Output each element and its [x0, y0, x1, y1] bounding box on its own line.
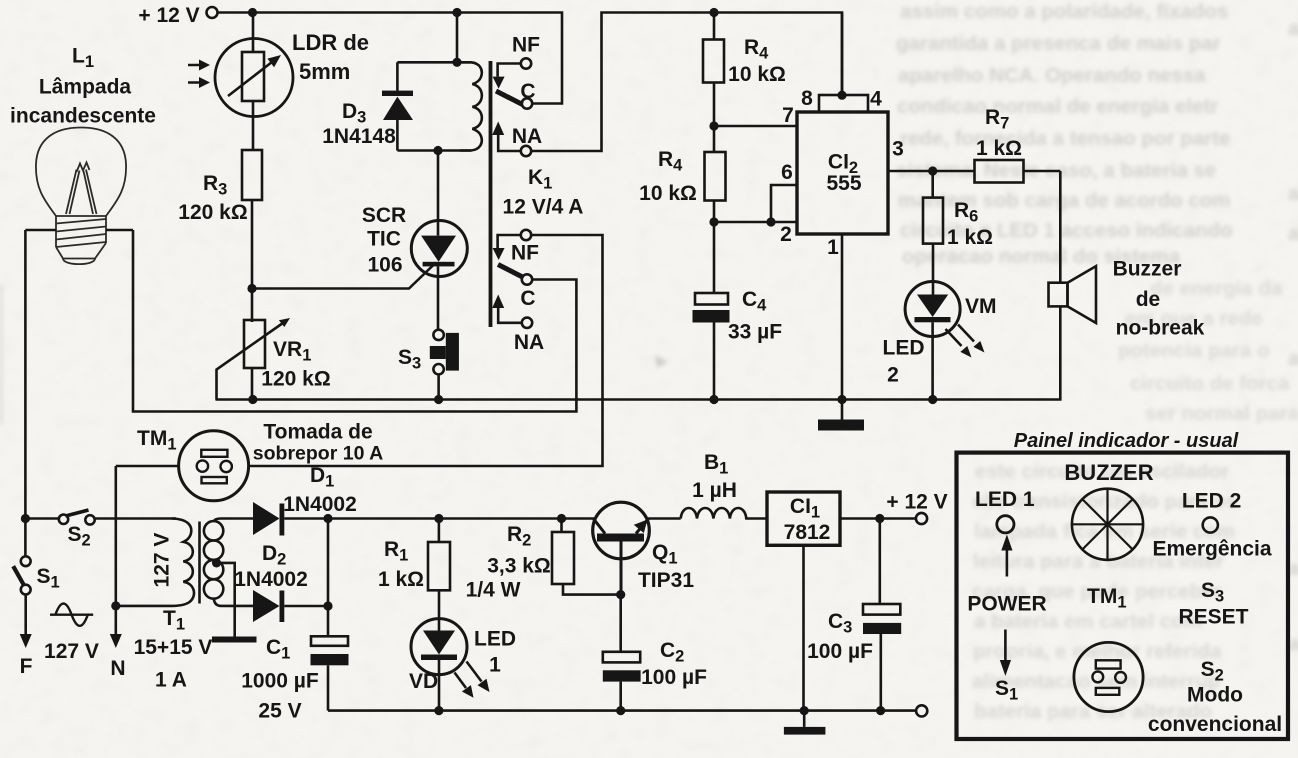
svg-text:1 kΩ: 1 kΩ: [378, 568, 424, 591]
svg-text:106: 106: [367, 254, 402, 277]
svg-text:POWER: POWER: [967, 593, 1046, 616]
svg-text:15+15 V: 15+15 V: [134, 636, 213, 659]
svg-text:1: 1: [489, 654, 501, 677]
svg-text:al: al: [1288, 348, 1298, 370]
svg-text:1 A: 1 A: [155, 669, 187, 692]
svg-text:33 µF: 33 µF: [728, 321, 782, 344]
svg-text:al: al: [1288, 183, 1298, 205]
svg-text:1/4 W: 1/4 W: [466, 579, 521, 602]
svg-text:RESET: RESET: [1178, 606, 1248, 629]
svg-text:Lâmpada: Lâmpada: [39, 76, 132, 99]
svg-text:7812: 7812: [784, 521, 831, 544]
svg-text:al: al: [1288, 18, 1298, 40]
svg-text:mantem sob carga de acordo com: mantem sob carga de acordo com: [898, 189, 1231, 212]
svg-text:no-break: no-break: [1116, 317, 1205, 340]
svg-text:garantida a presenca de mais p: garantida a presenca de mais par: [896, 32, 1221, 55]
svg-text:1000 µF: 1000 µF: [241, 670, 319, 693]
svg-text:5mm: 5mm: [299, 59, 350, 84]
svg-text:1 µH: 1 µH: [692, 479, 737, 502]
svg-text:TIP31: TIP31: [638, 569, 694, 592]
svg-text:Emergência: Emergência: [1152, 538, 1271, 561]
svg-text:potencia para o: potencia para o: [1118, 339, 1270, 362]
svg-text:7: 7: [782, 104, 794, 127]
svg-text:2: 2: [887, 364, 899, 387]
svg-text:4: 4: [870, 88, 882, 111]
svg-text:120 kΩ: 120 kΩ: [261, 368, 330, 391]
svg-text:LED 1: LED 1: [975, 488, 1035, 511]
svg-text:2: 2: [780, 223, 792, 246]
svg-text:NA: NA: [514, 331, 544, 354]
svg-text:TIC: TIC: [367, 228, 401, 251]
svg-text:C: C: [520, 287, 535, 310]
svg-text:+ 12 V: + 12 V: [138, 4, 199, 27]
svg-text:VD: VD: [409, 670, 438, 693]
svg-text:condicao normal de energia ele: condicao normal de energia eletr: [897, 95, 1218, 118]
svg-text:127 V: 127 V: [44, 640, 99, 663]
svg-text:3,3 kΩ: 3,3 kΩ: [487, 555, 551, 578]
svg-text:100 µF: 100 µF: [641, 666, 707, 689]
svg-text:sobrepor 10 A: sobrepor 10 A: [253, 443, 383, 465]
svg-text:3: 3: [892, 138, 904, 161]
svg-text:BUZZER: BUZZER: [1064, 460, 1153, 485]
svg-text:assim como a polaridade, fixad: assim como a polaridade, fixados: [900, 0, 1228, 23]
svg-text:555: 555: [826, 172, 861, 195]
svg-text:25 V: 25 V: [258, 700, 301, 723]
svg-text:1N4002: 1N4002: [283, 493, 357, 516]
svg-text:rede, fornecida a tensao por p: rede, fornecida a tensao por parte: [900, 127, 1230, 150]
svg-text:1 kΩ: 1 kΩ: [947, 226, 993, 249]
svg-text:C: C: [520, 80, 535, 103]
svg-text:100 µF: 100 µF: [807, 640, 873, 663]
svg-text:12 V/4 A: 12 V/4 A: [503, 196, 584, 219]
svg-text:N: N: [110, 657, 125, 680]
svg-text:8: 8: [801, 87, 813, 110]
svg-text:LED: LED: [883, 337, 925, 360]
svg-text:LDR de: LDR de: [292, 30, 369, 55]
svg-text:6: 6: [781, 161, 793, 184]
svg-text:+ 12 V: + 12 V: [886, 491, 947, 514]
svg-text:circuito de forca: circuito de forca: [1130, 372, 1290, 395]
svg-text:VM: VM: [965, 295, 997, 318]
svg-text:Tomada de: Tomada de: [263, 421, 372, 444]
svg-text:1 kΩ: 1 kΩ: [976, 137, 1022, 160]
svg-text:Painel indicador - usual: Painel indicador - usual: [1014, 430, 1239, 452]
svg-text:1N4148: 1N4148: [322, 125, 396, 148]
svg-text:aparelho NCA. Operando nessa: aparelho NCA. Operando nessa: [898, 64, 1206, 87]
svg-text:10 kΩ: 10 kΩ: [728, 63, 786, 86]
svg-text:NA: NA: [512, 125, 542, 148]
svg-text:LED: LED: [474, 628, 516, 651]
svg-text:120 kΩ: 120 kΩ: [178, 201, 247, 224]
svg-text:SCR: SCR: [362, 204, 406, 227]
svg-text:convencional: convencional: [1148, 713, 1282, 736]
svg-text:NF: NF: [511, 242, 539, 265]
svg-text:1: 1: [827, 236, 839, 259]
svg-text:incandescente: incandescente: [10, 105, 156, 128]
svg-text:Buzzer: Buzzer: [1113, 258, 1182, 281]
svg-text:de: de: [1136, 288, 1161, 311]
svg-text:LED 2: LED 2: [1182, 490, 1242, 513]
svg-text:Modo: Modo: [1187, 684, 1243, 707]
svg-text:al: al: [1288, 223, 1298, 245]
svg-text:10 kΩ: 10 kΩ: [639, 182, 697, 205]
svg-text:ser normal para: ser normal para: [1145, 402, 1298, 425]
svg-text:F: F: [20, 655, 33, 678]
svg-text:NF: NF: [512, 34, 540, 57]
svg-text:1N4002: 1N4002: [234, 568, 308, 591]
svg-text:127 V: 127 V: [151, 533, 174, 588]
